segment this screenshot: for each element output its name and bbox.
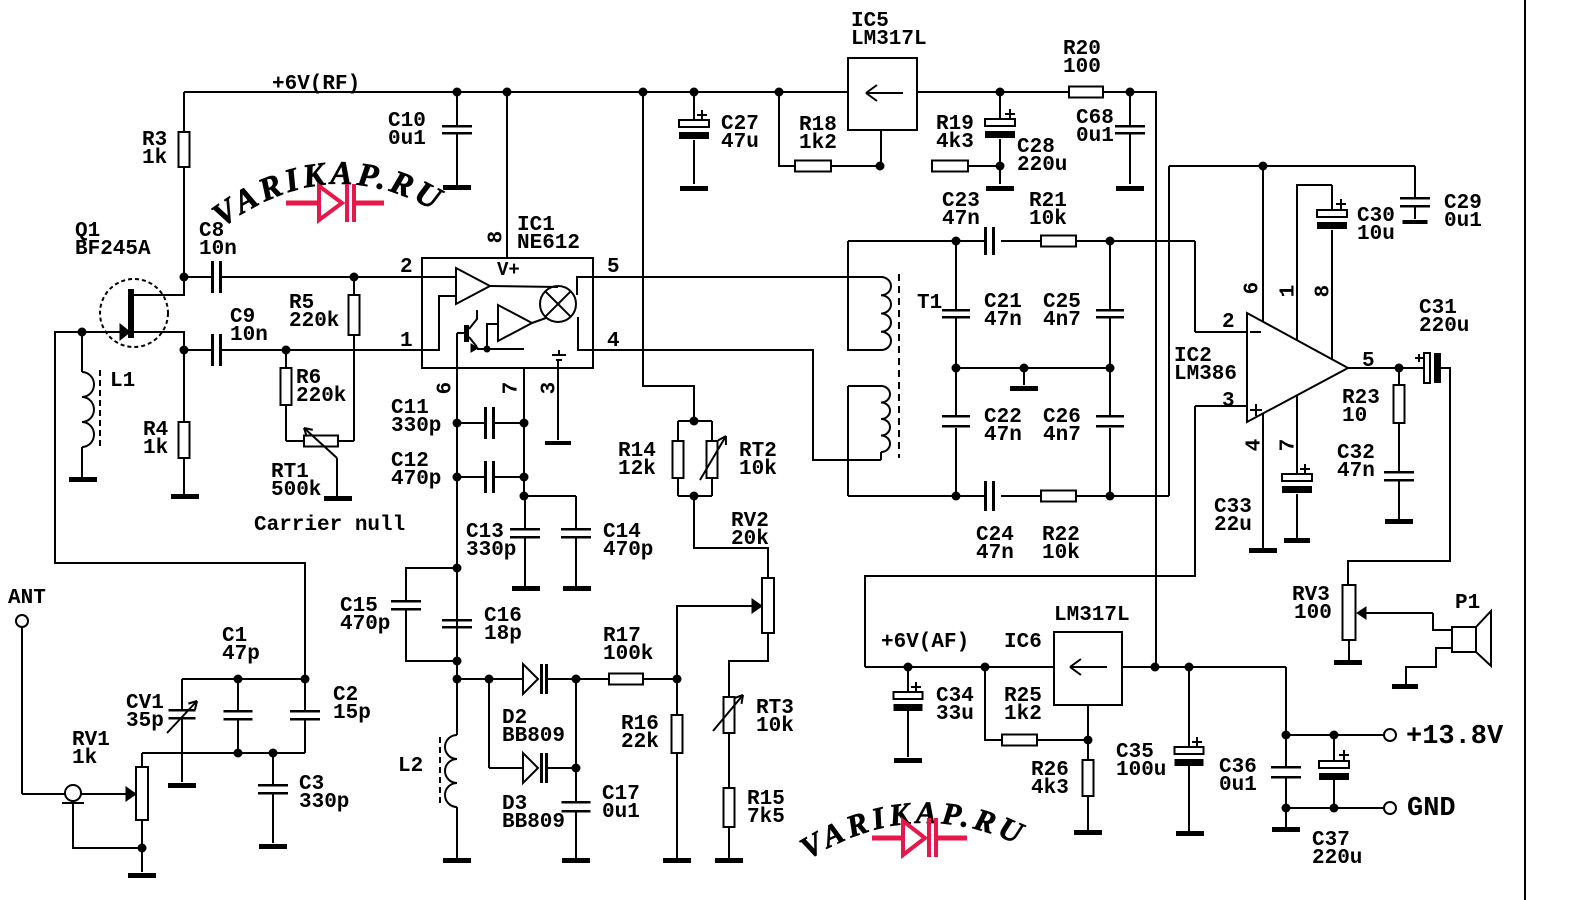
svg-text:7k5: 7k5 <box>747 806 785 829</box>
svg-text:4n7: 4n7 <box>1043 424 1081 447</box>
svg-text:+13.8V: +13.8V <box>1406 722 1504 752</box>
svg-text:1k: 1k <box>142 147 167 170</box>
svg-text:5: 5 <box>1362 350 1375 373</box>
svg-text:0u1: 0u1 <box>1219 774 1257 797</box>
svg-text:47p: 47p <box>222 643 260 666</box>
svg-text:10k: 10k <box>1029 208 1067 231</box>
svg-text:10k: 10k <box>756 715 794 738</box>
svg-text:33u: 33u <box>936 703 974 726</box>
svg-text:LM317L: LM317L <box>851 28 927 51</box>
svg-text:5: 5 <box>607 256 620 279</box>
svg-text:6: 6 <box>1242 282 1265 295</box>
svg-text:330p: 330p <box>299 791 349 814</box>
svg-text:18p: 18p <box>484 623 522 646</box>
svg-text:100: 100 <box>1294 602 1332 625</box>
svg-text:T1: T1 <box>917 292 942 315</box>
svg-text:L2: L2 <box>398 755 423 778</box>
svg-text:470p: 470p <box>603 539 653 562</box>
svg-text:1k: 1k <box>143 437 168 460</box>
svg-text:Carrier null: Carrier null <box>254 514 405 537</box>
svg-text:1: 1 <box>400 330 413 353</box>
svg-text:20k: 20k <box>731 528 769 551</box>
svg-text:220k: 220k <box>296 385 346 408</box>
svg-text:0u1: 0u1 <box>388 128 426 151</box>
svg-text:4n7: 4n7 <box>1043 309 1081 332</box>
svg-text:500k: 500k <box>271 479 321 502</box>
svg-text:+6V(RF): +6V(RF) <box>272 73 360 96</box>
svg-text:GND: GND <box>1407 794 1456 824</box>
svg-text:10k: 10k <box>1042 542 1080 565</box>
svg-text:BB809: BB809 <box>502 811 565 834</box>
svg-text:4k3: 4k3 <box>1031 777 1069 800</box>
svg-text:47u: 47u <box>721 131 759 154</box>
svg-text:6: 6 <box>435 382 458 395</box>
svg-text:220u: 220u <box>1312 847 1362 870</box>
svg-text:12k: 12k <box>618 458 656 481</box>
svg-text:10u: 10u <box>1357 223 1395 246</box>
svg-text:47n: 47n <box>984 309 1022 332</box>
svg-text:7: 7 <box>1278 439 1301 452</box>
svg-text:8: 8 <box>1313 285 1336 298</box>
svg-text:10n: 10n <box>230 324 268 347</box>
svg-text:47n: 47n <box>942 208 980 231</box>
svg-text:4k3: 4k3 <box>936 131 974 154</box>
svg-text:220k: 220k <box>289 310 339 333</box>
svg-text:0u1: 0u1 <box>1444 210 1482 233</box>
svg-text:10: 10 <box>1342 405 1367 428</box>
svg-text:BF245A: BF245A <box>75 238 151 261</box>
svg-text:470p: 470p <box>340 613 390 636</box>
svg-text:7: 7 <box>501 382 524 395</box>
svg-text:220u: 220u <box>1017 154 1067 177</box>
svg-text:1k2: 1k2 <box>799 132 837 155</box>
svg-text:1k: 1k <box>72 747 97 770</box>
svg-text:330p: 330p <box>391 415 441 438</box>
svg-text:10k: 10k <box>739 458 777 481</box>
svg-text:470p: 470p <box>391 468 441 491</box>
svg-text:L1: L1 <box>110 370 135 393</box>
svg-text:1: 1 <box>1278 285 1301 298</box>
svg-text:1k2: 1k2 <box>1004 703 1042 726</box>
svg-text:ANT: ANT <box>8 587 46 610</box>
svg-text:100k: 100k <box>603 643 653 666</box>
svg-text:IC6: IC6 <box>1004 631 1042 654</box>
svg-text:+6V(AF): +6V(AF) <box>881 631 969 654</box>
svg-text:2: 2 <box>400 256 413 279</box>
svg-text:V+: V+ <box>497 259 520 281</box>
svg-text:10n: 10n <box>199 238 237 261</box>
svg-text:22k: 22k <box>621 731 659 754</box>
svg-text:NE612: NE612 <box>517 232 580 255</box>
svg-text:3: 3 <box>539 382 562 395</box>
svg-text:47n: 47n <box>1337 460 1375 483</box>
svg-text:LM317L: LM317L <box>1054 604 1130 627</box>
svg-text:8: 8 <box>486 231 509 244</box>
svg-text:2: 2 <box>1222 311 1235 334</box>
svg-text:4: 4 <box>1244 439 1267 452</box>
svg-text:P1: P1 <box>1455 592 1480 615</box>
svg-text:BB809: BB809 <box>502 725 565 748</box>
svg-text:47n: 47n <box>976 542 1014 565</box>
svg-text:330p: 330p <box>466 539 516 562</box>
svg-text:220u: 220u <box>1419 315 1469 338</box>
svg-text:22u: 22u <box>1214 514 1252 537</box>
svg-text:100u: 100u <box>1116 759 1166 782</box>
svg-text:LM386: LM386 <box>1174 363 1237 386</box>
svg-text:3: 3 <box>1222 390 1235 413</box>
svg-text:47n: 47n <box>984 424 1022 447</box>
svg-text:35p: 35p <box>126 710 164 733</box>
svg-text:0u1: 0u1 <box>1076 125 1114 148</box>
svg-text:100: 100 <box>1063 56 1101 79</box>
svg-text:0u1: 0u1 <box>602 801 640 824</box>
svg-text:15p: 15p <box>333 702 371 725</box>
